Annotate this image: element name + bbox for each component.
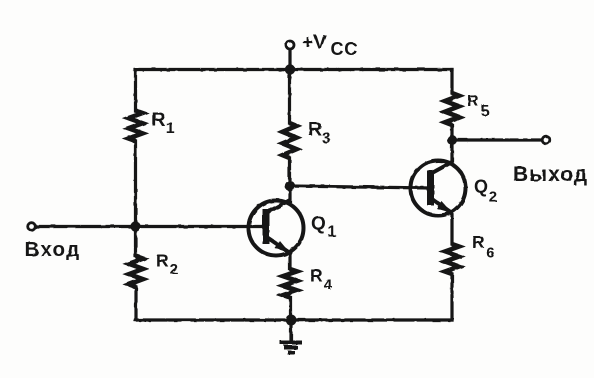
svg-text:3: 3: [322, 131, 331, 148]
wire Vcc stub: [288, 49, 291, 70]
svg-text:CC: CC: [331, 39, 359, 59]
ground: [280, 343, 302, 353]
wire left branch lower (R2 to bottom rail): [134, 287, 137, 320]
wire left branch upper (rail to R1): [134, 70, 137, 112]
label R4: [310, 266, 333, 294]
wire middle branch upper (rail to R3): [288, 70, 291, 124]
svg-text:2: 2: [170, 261, 178, 278]
wire output lead: [452, 138, 542, 141]
label R6: [472, 232, 495, 262]
wire Q2 collector lead: [450, 140, 453, 164]
junction at Vcc rail: [285, 64, 295, 74]
wire Q1 emitter lead to R4: [288, 252, 291, 269]
label +Vcc: [302, 32, 358, 60]
label R1: [152, 109, 175, 137]
wire Q2 emitter lead to R6: [450, 212, 453, 244]
svg-text:1: 1: [166, 120, 175, 137]
svg-text:Q: Q: [474, 177, 488, 197]
svg-text:6: 6: [486, 245, 494, 262]
wire R4 to bottom rail: [289, 298, 292, 321]
label Q2: [474, 177, 497, 206]
wire input lead: [35, 225, 265, 228]
label Q1: [311, 214, 337, 241]
resistor R6: [445, 244, 459, 274]
junction at ground node: [286, 315, 297, 326]
resistor R4: [283, 269, 297, 298]
wire left branch mid (R1 to input node to R2): [134, 141, 137, 256]
svg-text:Выход: Выход: [513, 163, 588, 186]
wire collector node to Q2 base: [290, 186, 429, 188]
svg-text:5: 5: [481, 103, 490, 120]
svg-text:Q: Q: [311, 214, 326, 235]
wire R5 to output node: [450, 125, 453, 140]
svg-text:R: R: [308, 119, 322, 141]
wire Q1 collector lead: [288, 186, 291, 201]
wire ground stub: [289, 320, 292, 341]
resistor R2: [129, 256, 143, 287]
wire R3 to collector node: [288, 158, 291, 186]
svg-text:2: 2: [489, 189, 497, 206]
svg-text:R: R: [472, 232, 485, 252]
wire bottom rail: [136, 318, 453, 321]
svg-text:+V: +V: [302, 32, 326, 54]
wire top supply rail: [135, 68, 452, 71]
label R3: [308, 119, 331, 148]
label R2: [156, 251, 178, 279]
resistor R1: [129, 111, 143, 142]
transistor Q2: [411, 161, 466, 216]
label R5: [467, 93, 490, 120]
resistor R3: [283, 123, 297, 158]
resistor R5: [445, 93, 459, 125]
terminal output: [542, 136, 550, 144]
svg-text:4: 4: [324, 277, 333, 294]
junction at output node: [447, 135, 457, 145]
terminal input: [28, 223, 36, 231]
svg-text:R: R: [156, 251, 169, 271]
transistor Q1: [249, 200, 304, 256]
svg-text:R: R: [310, 266, 323, 286]
wire R6 to bottom rail: [450, 274, 453, 320]
svg-text:Вход: Вход: [25, 238, 81, 261]
svg-text:1: 1: [328, 224, 337, 241]
junction at Q1 collector node: [285, 181, 295, 191]
terminal +Vcc: [286, 41, 294, 49]
wire right branch upper (rail to R5): [450, 70, 453, 94]
svg-text:R: R: [467, 93, 479, 110]
junction at input node: [130, 221, 140, 231]
svg-text:R: R: [152, 109, 166, 131]
